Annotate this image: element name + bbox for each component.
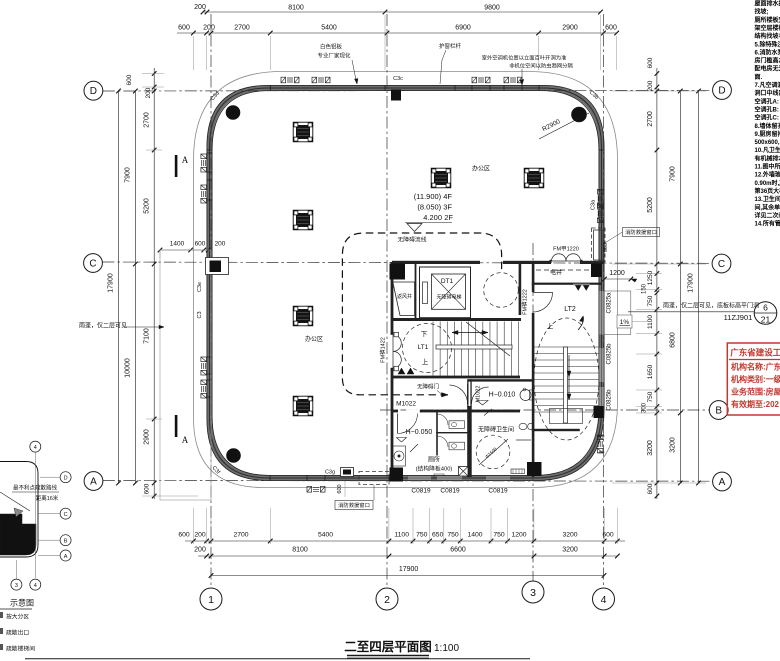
svg-text:1%: 1% — [620, 319, 630, 326]
fire rescue label right — [623, 228, 660, 237]
round column top-right — [572, 107, 587, 122]
svg-text:9.厨房留排烟: 9.厨房留排烟 — [755, 130, 780, 138]
round column top-left — [226, 106, 240, 120]
svg-text:650: 650 — [432, 532, 444, 539]
svg-text:300: 300 — [642, 402, 648, 413]
left dimension outer line 17900 — [118, 91, 120, 483]
svg-text:C0819: C0819 — [411, 488, 431, 495]
svg-text:6.消防水泵房、: 6.消防水泵房、 — [755, 48, 780, 56]
radius R2900 annotation — [539, 113, 589, 139]
svg-text:11.图中所有栏: 11.图中所有栏 — [755, 163, 780, 171]
fire rescue window dashed right — [594, 230, 604, 260]
door FM甲1220 electrical — [552, 254, 581, 261]
window C0825b-1 right wall — [599, 348, 603, 382]
electrical shaft walls — [532, 283, 602, 285]
svg-text:3200: 3200 — [562, 532, 577, 539]
bottom dimension line row 3 17900 — [211, 575, 604, 577]
svg-text:600: 600 — [144, 483, 151, 494]
svg-text:厕所: 厕所 — [428, 456, 440, 464]
key plan black zone — [0, 514, 36, 555]
window vent markers right wall — [597, 190, 603, 208]
svg-text:8100: 8100 — [288, 5, 304, 12]
svg-text:上: 上 — [422, 357, 429, 366]
svg-text:1250: 1250 — [647, 270, 654, 285]
bottom extension lines — [192, 508, 194, 544]
fire rescue label bottom — [335, 501, 373, 510]
window box left wall grid C — [206, 258, 229, 275]
svg-text:6600: 6600 — [450, 547, 466, 554]
grid line D — [103, 89, 713, 92]
grid line 2 — [386, 14, 388, 588]
grid bubble A left — [84, 472, 103, 491]
grid bubble 2 — [376, 588, 398, 610]
svg-text:200: 200 — [194, 4, 206, 11]
svg-text:1200: 1200 — [511, 532, 526, 539]
svg-text:疏散出口: 疏散出口 — [6, 629, 29, 637]
canopy outline (roof edge, thin) — [194, 72, 618, 488]
stair LT1 treads — [432, 322, 434, 376]
svg-text:1650: 1650 — [647, 364, 654, 379]
lobby dashed circle — [484, 273, 519, 308]
svg-text:21: 21 — [761, 315, 771, 325]
door FM1422 double door left wall — [393, 335, 401, 368]
stair LT1 dashed circle — [403, 324, 452, 373]
svg-text:非机位空间以防虫趋网分隔: 非机位空间以防虫趋网分隔 — [509, 62, 573, 70]
svg-text:2700: 2700 — [233, 532, 248, 539]
door FM1222 to LT2 — [533, 293, 553, 313]
svg-text:3200: 3200 — [647, 440, 654, 456]
svg-text:4: 4 — [34, 583, 37, 589]
wall block toilets bottom left — [390, 468, 404, 482]
wall y315 under DT1 — [392, 318, 521, 321]
svg-text:机构名称:广东: 机构名称:广东 — [731, 362, 780, 372]
grid bubble 3 — [522, 581, 544, 603]
svg-text:750: 750 — [647, 295, 654, 306]
wall x437 toilet stall wall — [436, 411, 438, 456]
svg-text:房门槛高20: 房门槛高20 — [755, 57, 780, 65]
window vent markers left wall — [201, 154, 207, 172]
svg-text:二至四层平面图: 二至四层平面图 — [344, 640, 432, 654]
svg-text:1400: 1400 — [170, 241, 185, 248]
svg-text:4: 4 — [601, 594, 607, 606]
svg-text:8100: 8100 — [292, 547, 308, 554]
grid bubble D right — [713, 81, 732, 100]
core wall x533 spine — [532, 262, 535, 292]
svg-text:4.200: 4.200 — [423, 213, 442, 222]
svg-text:护窗栏杆: 护窗栏杆 — [439, 42, 462, 50]
column Z2 — [293, 210, 313, 230]
stair LT2 dashed ellipse — [534, 318, 599, 440]
svg-text:消防救援窗口: 消防救援窗口 — [625, 228, 657, 236]
column Z6 — [524, 168, 544, 188]
toilet stalls — [436, 432, 468, 433]
svg-text:R2900: R2900 — [541, 118, 562, 133]
svg-text:雨蓬，仅二层可见: 雨蓬，仅二层可见 — [79, 322, 127, 330]
svg-text:结构找坡与建筑: 结构找坡与建筑 — [755, 32, 780, 40]
svg-text:17900: 17900 — [108, 273, 115, 293]
svg-text:面.: 面. — [755, 73, 763, 81]
svg-text:机构类别:一级: 机构类别:一级 — [731, 374, 780, 384]
svg-text:第36页大样做: 第36页大样做 — [754, 187, 780, 195]
svg-text:H−0.050: H−0.050 — [406, 429, 433, 436]
accessible route dashed loop — [342, 233, 501, 395]
stair LT1 direction arrows — [452, 332, 488, 334]
svg-text:C3g: C3g — [325, 470, 335, 476]
stair LT2 treads — [534, 346, 599, 348]
elevator DT1 door — [423, 282, 428, 304]
key plan legend entries — [0, 612, 3, 618]
svg-text:配电房无光电: 配电房无光电 — [755, 65, 780, 73]
stall doors — [437, 414, 448, 447]
svg-text:600: 600 — [195, 241, 206, 248]
svg-text:B: B — [715, 406, 722, 417]
core wall top (grid C) — [392, 261, 480, 264]
svg-text:(11.900) 4F: (11.900) 4F — [414, 192, 453, 201]
window vent markers top wall — [281, 77, 299, 83]
left dimension fine line — [153, 68, 155, 499]
canopy below (2F) outline left — [160, 250, 211, 500]
column Z1 — [293, 122, 313, 142]
svg-text:C3: C3 — [197, 311, 203, 318]
svg-text:疏散楼梯间: 疏散楼梯间 — [6, 645, 35, 653]
svg-text:2900: 2900 — [562, 25, 578, 32]
sheet border bottom — [25, 658, 530, 660]
right dimension outer line 17900 — [698, 91, 700, 483]
svg-text:12.外墙玻璃幕: 12.外墙玻璃幕 — [755, 171, 780, 179]
round column bottom-left — [227, 449, 241, 463]
svg-text:17900: 17900 — [688, 273, 695, 293]
grid bubble D left — [84, 81, 103, 100]
svg-text:C0819: C0819 — [488, 488, 508, 495]
top dimension line row 2 — [177, 32, 617, 34]
svg-text:2700: 2700 — [144, 112, 151, 128]
svg-text:2700: 2700 — [234, 25, 250, 32]
svg-text:1:100: 1:100 — [434, 643, 459, 654]
svg-text:5.除特殊注明外: 5.除特殊注明外 — [755, 40, 780, 48]
stair LT2 center rail — [564, 347, 568, 423]
svg-text:14.所有管道井: 14.所有管道井 — [755, 220, 780, 228]
svg-text:雨蓬，仅二层可见，底板标高平门洞: 雨蓬，仅二层可见，底板标高平门洞 — [663, 302, 759, 310]
svg-text:7100: 7100 — [144, 328, 151, 344]
svg-text:600: 600 — [605, 25, 617, 32]
svg-text:7900: 7900 — [125, 167, 132, 183]
grid bubble 1 — [200, 588, 222, 610]
svg-text:C3e: C3e — [197, 282, 203, 292]
window C0819-2 bottom — [437, 476, 462, 480]
svg-text:6900: 6900 — [455, 25, 471, 32]
accessible WC toilet — [520, 390, 531, 401]
grid bubble C right — [712, 254, 731, 273]
svg-text:3: 3 — [530, 587, 536, 599]
svg-text:1: 1 — [208, 594, 214, 606]
svg-text:8.墙体留孔见: 8.墙体留孔见 — [755, 122, 780, 130]
svg-text:10.凡卫生间均: 10.凡卫生间均 — [755, 146, 780, 154]
svg-text:3: 3 — [15, 583, 18, 589]
right dimension mid line — [679, 91, 681, 483]
svg-text:空调孔B: 离: 空调孔B: 离 — [755, 105, 780, 113]
svg-text:办公区: 办公区 — [305, 335, 323, 343]
svg-text:H−0.010: H−0.010 — [489, 392, 516, 399]
key plan escape route line — [0, 492, 30, 511]
grid line 3 — [532, 243, 534, 581]
grid line 1 — [210, 14, 212, 588]
svg-text:M1022: M1022 — [476, 386, 482, 403]
svg-text:无障碍流线: 无障碍流线 — [398, 236, 427, 244]
svg-text:A: A — [182, 435, 189, 445]
svg-text:3200: 3200 — [562, 547, 578, 554]
wall x468-471 double — [467, 379, 468, 407]
wash basin near door — [523, 388, 526, 391]
svg-text:2F: 2F — [444, 213, 453, 222]
elevator DT1 car with cross — [432, 274, 466, 309]
svg-text:5400: 5400 — [321, 25, 337, 32]
svg-text:C0819: C0819 — [440, 488, 460, 495]
key plan grid bubbles — [30, 441, 41, 452]
svg-text:11ZJ901: 11ZJ901 — [724, 313, 753, 322]
svg-text:C: C — [64, 512, 68, 518]
svg-text:有机械排水设: 有机械排水设 — [755, 154, 780, 162]
svg-text:2700: 2700 — [647, 111, 654, 127]
svg-text:5400: 5400 — [318, 532, 333, 539]
svg-text:广东省建设工程: 广东省建设工程 — [730, 348, 780, 358]
left dimension mid line — [134, 91, 136, 483]
svg-text:1200: 1200 — [609, 270, 625, 277]
wall y411 toilet top — [392, 410, 398, 413]
wall block core top-left — [390, 264, 406, 280]
slope 1% box — [617, 315, 632, 328]
floor drain box — [459, 467, 469, 477]
bottom dimension line row 1 — [185, 540, 625, 542]
grid bubble A right — [713, 472, 732, 491]
column Z3 — [293, 306, 313, 326]
bottom dimension line row 2 — [198, 555, 618, 557]
svg-text:D: D — [90, 86, 97, 97]
svg-text:5200: 5200 — [647, 197, 654, 213]
svg-text:D: D — [718, 86, 725, 97]
door M1022 into accessible WC — [472, 387, 489, 404]
svg-text:办公区: 办公区 — [472, 165, 490, 173]
AC ledge rect right — [604, 291, 631, 335]
svg-text:750: 750 — [447, 532, 459, 539]
svg-text:A: A — [90, 477, 97, 488]
grid bubble 4 — [593, 588, 615, 610]
svg-text:10000: 10000 — [125, 358, 132, 378]
svg-text:6: 6 — [763, 303, 768, 313]
red certification stamp — [727, 343, 780, 415]
svg-text:专业厂家现化: 专业厂家现化 — [317, 52, 351, 60]
svg-text:下: 下 — [421, 330, 428, 338]
svg-text:C3b: C3b — [588, 90, 600, 101]
svg-text:A: A — [719, 477, 726, 488]
svg-text:4: 4 — [34, 445, 37, 451]
exterior wall band (curtain wall) — [210, 88, 602, 478]
svg-text:FM甲1220: FM甲1220 — [553, 246, 579, 253]
core wall left vertical — [391, 262, 394, 334]
svg-text:600: 600 — [178, 532, 190, 539]
grid bubble C left — [84, 254, 103, 273]
svg-text:200: 200 — [215, 241, 226, 248]
sill board bottom — [511, 469, 525, 474]
svg-text:架空层楼板与首: 架空层楼板与首 — [754, 24, 780, 32]
svg-text:空调孔A: 离: 空调孔A: 离 — [755, 97, 780, 105]
window C0819-3 bottom — [486, 476, 510, 480]
elevator DT1 shaft — [420, 267, 471, 318]
svg-text:500x600,出屋: 500x600,出屋 — [755, 138, 780, 146]
window box C3g bottom wall — [341, 468, 354, 477]
svg-text:2900: 2900 — [144, 429, 151, 445]
grid bubble B right — [709, 401, 728, 420]
key plan mini outline — [0, 462, 38, 558]
svg-text:消防救援窗口: 消防救援窗口 — [338, 501, 370, 509]
column Z4 — [293, 396, 313, 416]
svg-text:600: 600 — [178, 25, 190, 32]
sill board 2 — [434, 474, 444, 478]
svg-text:200: 200 — [194, 532, 206, 539]
svg-text:LT2: LT2 — [564, 306, 576, 313]
svg-text:0.90m时,加设: 0.90m时,加设 — [755, 179, 780, 187]
svg-text:(结构降板400): (结构降板400) — [416, 465, 453, 473]
accessible WC basin — [519, 423, 527, 429]
svg-text:600: 600 — [603, 243, 609, 252]
return air shaft walls — [415, 262, 417, 318]
svg-text:DT1: DT1 — [441, 278, 454, 285]
svg-text:室外空调机位置以立面百叶开洞为准: 室外空调机位置以立面百叶开洞为准 — [482, 54, 567, 62]
svg-text:(8.050) 3F: (8.050) 3F — [417, 203, 452, 212]
wall y377 LT1 bottom — [392, 376, 520, 379]
svg-text:150: 150 — [642, 283, 648, 294]
svg-text:洞口中线离地: 洞口中线离地 — [755, 89, 780, 97]
svg-text:750: 750 — [493, 532, 505, 539]
svg-text:业务范围:房屋: 业务范围:房屋 — [731, 387, 780, 397]
svg-text:17900: 17900 — [399, 566, 419, 573]
svg-text:详见二次装修: 详见二次装修 — [755, 211, 780, 219]
grab rail — [516, 439, 531, 441]
svg-text:B: B — [64, 539, 68, 545]
svg-text:C3a: C3a — [591, 199, 597, 210]
wall y380 accessible WC top — [468, 379, 533, 381]
svg-text:C0825b: C0825b — [607, 389, 613, 411]
column Z5 — [431, 168, 451, 188]
svg-text:C: C — [718, 259, 725, 270]
svg-text:600: 600 — [126, 74, 133, 85]
detail reference bubble 6/21 — [754, 302, 777, 325]
wall block right wall grid B — [594, 406, 604, 418]
grid line C — [102, 262, 712, 263]
svg-text:无障碍门: 无障碍门 — [417, 383, 439, 391]
core wall x520 lobby-LT1 — [519, 262, 522, 315]
svg-text:3200: 3200 — [670, 437, 677, 453]
svg-text:600: 600 — [647, 483, 654, 494]
wall block electrical right — [591, 264, 602, 278]
svg-text:白色铝板: 白色铝板 — [320, 43, 343, 51]
svg-text:600: 600 — [647, 57, 654, 68]
top dimension line row 1 — [203, 11, 601, 13]
svg-text:有效期至:202: 有效期至:202 — [731, 399, 780, 409]
svg-text:600: 600 — [337, 484, 343, 493]
svg-text:示意图: 示意图 — [10, 598, 34, 608]
svg-text:750: 750 — [416, 532, 428, 539]
wall block core bottom right — [527, 462, 542, 476]
svg-text:屋面排水找坡见: 屋面排水找坡见 — [755, 0, 780, 8]
right extension lines — [612, 90, 706, 92]
stair LT1 handrail — [436, 345, 512, 349]
svg-text:7.凡空调洞口均: 7.凡空调洞口均 — [755, 81, 780, 89]
grid line B — [380, 409, 709, 411]
svg-text:C: C — [89, 259, 96, 270]
left small dim 1400-600-200 — [160, 249, 211, 251]
wall block top wall near core — [391, 90, 401, 101]
top extension lines — [192, 36, 194, 70]
accessible WC turning circle — [476, 435, 510, 469]
svg-text:C3f: C3f — [211, 465, 222, 476]
svg-text:5200: 5200 — [144, 198, 151, 214]
LT2 south wall — [532, 429, 580, 431]
svg-text:C3c: C3c — [393, 76, 403, 82]
wall mullion ticks — [269, 85, 271, 91]
leader line to detail bubble — [628, 311, 754, 313]
svg-text:空调孔C: 窗: 空调孔C: 窗 — [755, 114, 780, 122]
svg-text:A: A — [64, 554, 68, 560]
svg-text:按大分区: 按大分区 — [6, 613, 29, 621]
svg-text:C0825a: C0825a — [607, 292, 613, 314]
svg-text:7900: 7900 — [670, 166, 677, 182]
svg-text:无障碍卫生间: 无障碍卫生间 — [478, 426, 514, 434]
svg-text:厕所楼板完成面: 厕所楼板完成面 — [755, 16, 780, 24]
section marker A top — [175, 155, 178, 177]
svg-text:距离16米: 距离16米 — [36, 494, 59, 502]
svg-text:FM䄢1222: FM䄢1222 — [521, 289, 529, 315]
svg-text:1400: 1400 — [467, 532, 482, 539]
stair LT1 landing triangles — [398, 368, 405, 374]
window C0825b-2 right wall — [599, 387, 603, 406]
window C0819-1 bottom — [408, 476, 431, 480]
wall band center line — [210, 88, 602, 478]
left extension lines — [146, 149, 162, 151]
svg-text:200: 200 — [145, 87, 152, 98]
toilet door M1022 opening and arc — [406, 410, 420, 413]
svg-text:Φ1500: Φ1500 — [484, 446, 498, 459]
svg-text:返风井: 返风井 — [397, 293, 412, 300]
svg-text:无障碍电梯: 无障碍电梯 — [436, 294, 461, 301]
svg-text:2: 2 — [384, 594, 390, 606]
svg-text:上: 上 — [547, 322, 554, 331]
svg-text:9800: 9800 — [484, 5, 500, 12]
accessible route label — [393, 234, 431, 243]
stair LT2 entry level triangles — [575, 285, 581, 291]
svg-text:200: 200 — [194, 547, 206, 554]
svg-text:间,其余单位详: 间,其余单位详 — [755, 203, 780, 211]
fire rescue window dashed bottom — [359, 472, 389, 485]
svg-text:200: 200 — [203, 25, 215, 32]
svg-text:D: D — [64, 476, 68, 482]
svg-text:6800: 6800 — [670, 332, 677, 348]
right dim 1200 — [605, 278, 631, 280]
corridor door accessible — [450, 385, 468, 404]
svg-text:200: 200 — [647, 80, 654, 91]
svg-text:C0825b: C0825b — [607, 343, 613, 365]
window vent marker bottom wall — [307, 487, 325, 493]
stair LT2 landing rect — [550, 409, 583, 424]
svg-text:A: A — [182, 155, 189, 165]
grid line A — [103, 480, 713, 483]
section marker A bottom — [175, 415, 178, 437]
svg-text:LT1: LT1 — [418, 344, 429, 351]
grid line 4 — [603, 14, 605, 588]
svg-text:1100: 1100 — [394, 532, 409, 539]
svg-text:FM䄢1422: FM䄢1422 — [379, 337, 387, 363]
svg-text:13.卫生间隔断: 13.卫生间隔断 — [755, 195, 780, 203]
svg-text:750: 750 — [647, 391, 654, 402]
